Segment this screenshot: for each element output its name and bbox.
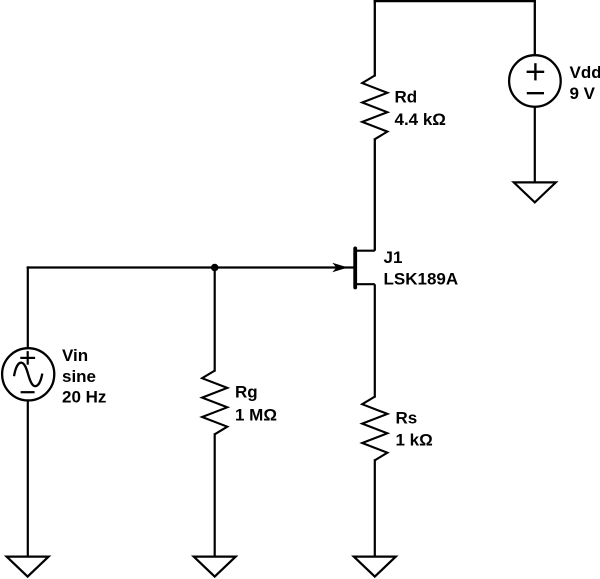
transistor J1 drain stub <box>355 250 375 252</box>
wire Vin bottom <box>27 401 29 557</box>
resistor Rs <box>362 397 387 461</box>
wire rail to Vdd <box>534 0 536 56</box>
svg-text:20 Hz: 20 Hz <box>62 388 106 407</box>
wire Vdd to ground <box>534 107 536 184</box>
transistor J1 channel bar <box>353 248 357 287</box>
svg-text:9 V: 9 V <box>570 84 596 103</box>
wire source to Rs <box>374 284 376 397</box>
svg-text:4.4 kΩ: 4.4 kΩ <box>395 110 446 129</box>
voltage source Vdd circle <box>509 55 561 107</box>
svg-text:Rg: Rg <box>235 383 258 402</box>
wire gate from Vin corner to node <box>27 266 215 268</box>
ground Rs <box>354 557 396 577</box>
svg-text:Rd: Rd <box>395 88 418 107</box>
svg-text:1 MΩ: 1 MΩ <box>235 406 277 425</box>
wire Rs bottom <box>374 459 376 557</box>
wire gate from node to J1 <box>215 266 354 268</box>
svg-text:LSK189A: LSK189A <box>384 270 459 289</box>
Vin sine wave <box>14 363 42 386</box>
Vin plus sign <box>20 357 35 359</box>
transistor J1 source stub <box>355 283 375 285</box>
ground Vdd <box>514 182 556 202</box>
wire Vin top <box>27 266 29 348</box>
node junction dot <box>211 264 219 272</box>
Vdd minus sign <box>527 92 544 94</box>
ground Vin <box>7 557 49 577</box>
transistor J1 gate arrow <box>334 264 347 272</box>
wire rail to Rd top <box>374 0 376 77</box>
wire Rg bottom <box>214 433 216 557</box>
voltage source Vin circle <box>2 348 54 400</box>
svg-text:Rs: Rs <box>396 409 418 428</box>
svg-text:1 kΩ: 1 kΩ <box>396 431 433 450</box>
ground Rg <box>194 557 236 577</box>
resistor Rd <box>362 76 387 140</box>
svg-text:J1: J1 <box>384 248 403 267</box>
svg-text:sine: sine <box>62 367 96 386</box>
resistor Rg <box>202 371 227 435</box>
wire Rd to drain <box>374 138 376 251</box>
svg-text:Vin: Vin <box>62 346 88 365</box>
wire top rail <box>374 0 536 2</box>
wire Rg top <box>214 266 216 371</box>
svg-text:Vdd: Vdd <box>570 63 600 82</box>
Vdd plus sign <box>527 71 545 73</box>
Vin minus sign <box>21 391 35 393</box>
